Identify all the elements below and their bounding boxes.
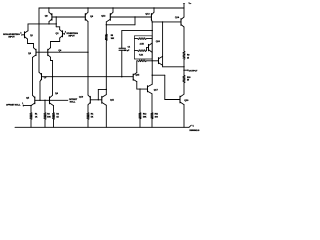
svg-text:OFFSET NULL: OFFSET NULL [6,104,21,106]
svg-text:50: 50 [187,80,189,82]
svg-text:R2: R2 [56,114,58,116]
svg-text:INPUT: INPUT [68,36,75,38]
svg-text:NON-INVERTING: NON-INVERTING [3,34,20,36]
svg-text:OUTPUT: OUTPUT [189,70,198,72]
svg-text:NULL: NULL [70,102,76,104]
svg-text:1: 1 [22,103,23,105]
svg-text:R10: R10 [187,77,190,79]
svg-text:25: 25 [187,57,189,59]
svg-text:INPUT: INPUT [8,37,15,39]
svg-text:R12: R12 [143,114,146,116]
svg-text:4.5K: 4.5K [140,42,145,45]
svg-text:R5: R5 [111,35,113,37]
svg-text:R9: R9 [187,55,189,57]
svg-text:30 pF: 30 pF [124,50,130,52]
svg-text:100: 100 [155,116,158,118]
svg-text:INVERTING: INVERTING [67,33,79,35]
svg-text:C1: C1 [128,46,130,48]
svg-text:3: 3 [20,32,21,34]
svg-text:OFFSET: OFFSET [69,99,78,101]
svg-text:R3: R3 [47,114,49,116]
svg-text:2: 2 [65,32,66,34]
svg-text:7.5K: 7.5K [139,55,144,57]
svg-text:R1: R1 [35,114,37,116]
svg-text:R11: R11 [155,114,158,116]
